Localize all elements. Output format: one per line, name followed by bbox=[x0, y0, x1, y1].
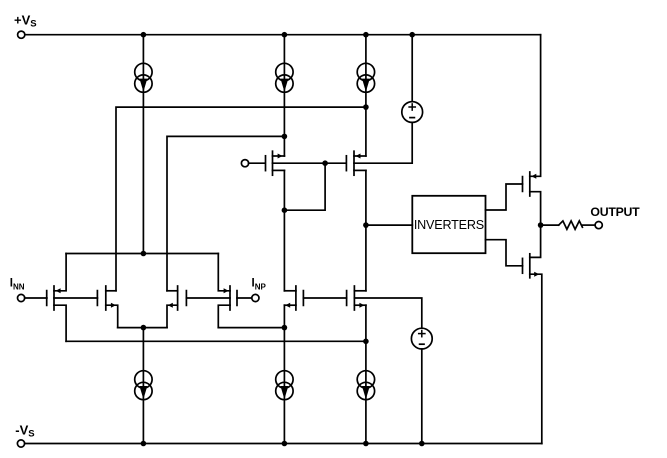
svg-text:OUTPUT: OUTPUT bbox=[590, 205, 640, 219]
svg-text:INVERTERS: INVERTERS bbox=[414, 218, 484, 232]
